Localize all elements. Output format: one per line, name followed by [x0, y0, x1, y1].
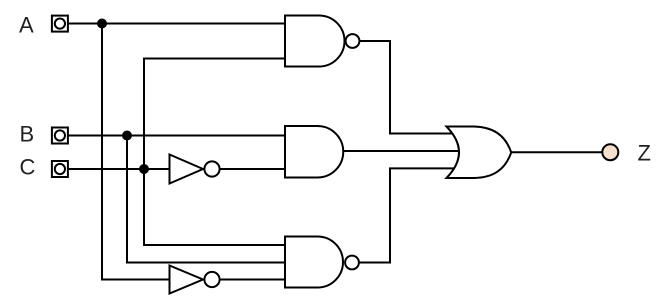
- svg-text:B: B: [20, 122, 35, 147]
- svg-text:A: A: [19, 13, 34, 38]
- svg-text:Z: Z: [638, 141, 651, 166]
- svg-text:C: C: [20, 155, 36, 180]
